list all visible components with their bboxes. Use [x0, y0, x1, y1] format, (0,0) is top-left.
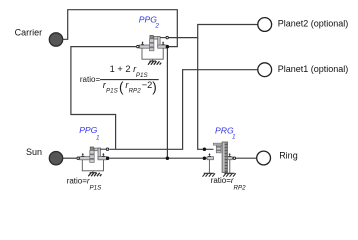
svg-text:2: 2: [154, 23, 159, 30]
ground left: [204, 172, 214, 174]
right ground leg: [229, 160, 231, 174]
svg-text:Carrier: Carrier: [15, 28, 43, 38]
svg-text:(: (: [119, 80, 124, 95]
lower left shaft: [204, 157, 207, 159]
port Sun: [49, 152, 62, 165]
block PRG1 icon: [203, 142, 236, 177]
wire planet1 net: [109, 70, 257, 150]
wire junction vertical from PPG2 dot to sun row: [166, 47, 168, 159]
tall ring gear: [222, 142, 227, 172]
right shaft: [227, 157, 232, 160]
top bar: [213, 143, 227, 145]
junction dot lower: [203, 156, 207, 160]
wire planet2 net: [198, 25, 258, 150]
svg-text:ratio=r: ratio=r: [211, 176, 234, 185]
svg-text:1 + 2 r: 1 + 2 r: [110, 64, 138, 74]
svg-text:RP2: RP2: [234, 184, 247, 191]
svg-text:ratio=r: ratio=r: [67, 177, 90, 186]
wire PPG2 top port to planet2 vertical: [169, 37, 198, 39]
junction dot sun row: [166, 156, 170, 160]
svg-text:ratio=: ratio=: [80, 75, 101, 84]
bearing arrow right: [228, 155, 231, 157]
thin wire from dot1: [204, 148, 213, 150]
svg-text:1: 1: [232, 134, 236, 141]
svg-text:): ): [152, 80, 157, 95]
svg-text:P1S: P1S: [106, 88, 119, 95]
svg-text:Ring: Ring: [279, 151, 298, 161]
wire PRG1 to ring: [236, 157, 256, 159]
svg-text:PPG: PPG: [79, 125, 97, 135]
right port circle: [233, 157, 235, 159]
svg-text:1: 1: [96, 134, 100, 141]
block PPG1 icon: [77, 147, 110, 176]
wire sun to PPG1: [63, 157, 76, 159]
svg-text:RP2: RP2: [129, 88, 142, 95]
ground right: [225, 172, 235, 174]
port Ring: [257, 151, 271, 165]
wire sun row PPG1 to PRG1: [110, 157, 205, 159]
port Planet2: [258, 18, 272, 32]
port Planet1: [258, 63, 272, 77]
bearing arrow left: [208, 155, 211, 157]
left ground leg: [208, 160, 210, 174]
wire carrier-to-top-line: [63, 10, 177, 47]
gear stack small: [216, 145, 221, 153]
wire PPG2 left port loop down: [71, 47, 136, 150]
equation ratio main: [80, 64, 159, 95]
svg-text:P1S: P1S: [136, 72, 149, 79]
thin wire to right port: [232, 157, 233, 159]
block PPG2 icon: [137, 35, 170, 64]
port Carrier: [49, 33, 62, 46]
junction dot upper: [203, 148, 207, 152]
svg-text:Sun: Sun: [26, 147, 42, 157]
svg-text:Planet1 (optional): Planet1 (optional): [278, 64, 349, 74]
svg-text:P1S: P1S: [90, 184, 103, 191]
svg-text:Planet2 (optional): Planet2 (optional): [278, 18, 349, 28]
